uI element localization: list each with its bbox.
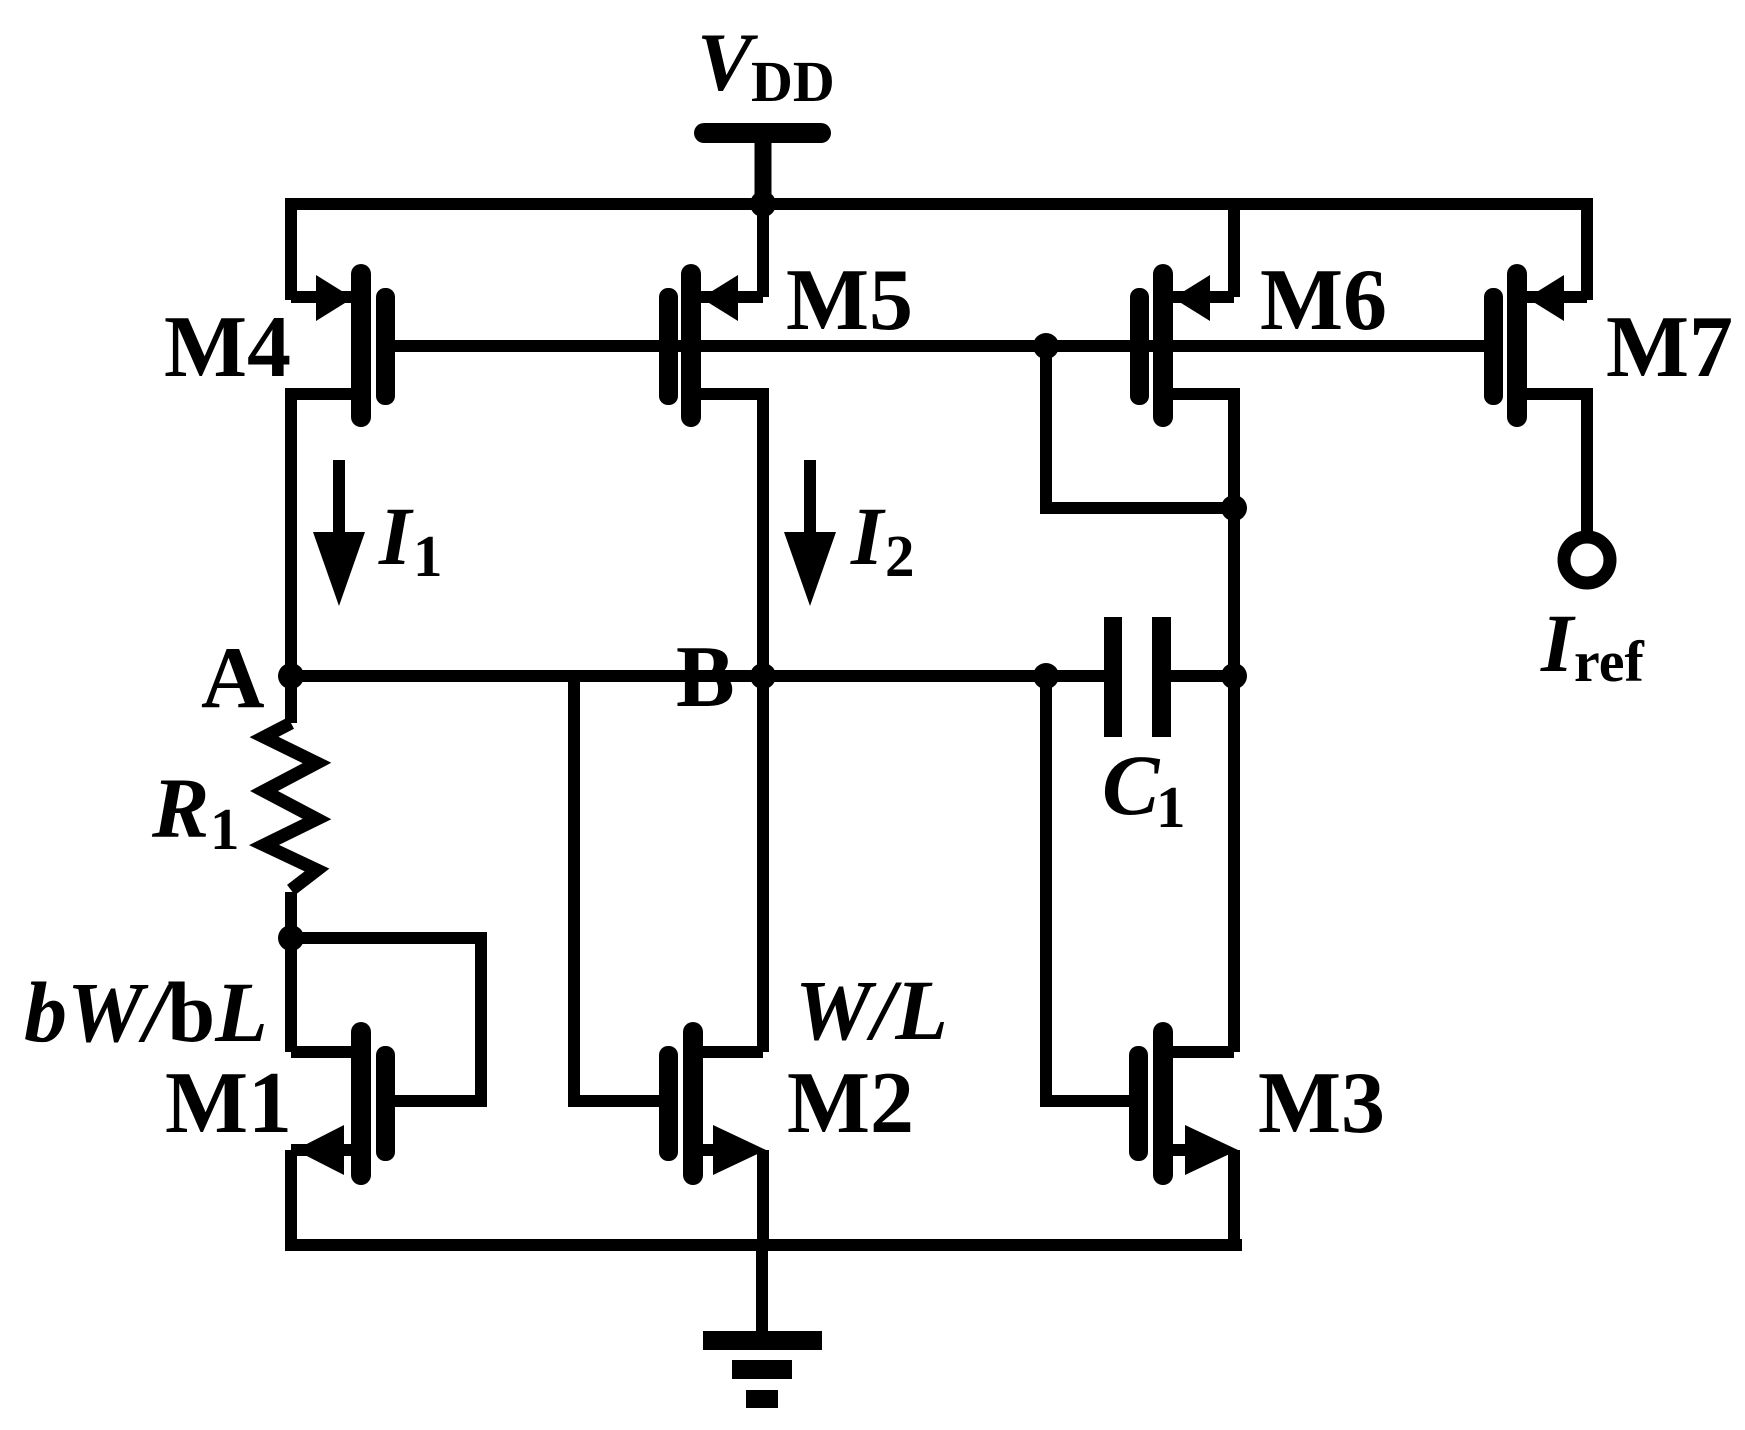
svg-text:2: 2 — [885, 523, 915, 589]
junction dot B wire / M3 gate — [1033, 663, 1059, 689]
transistor M1 — [291, 1022, 395, 1185]
wire M3 source to bottom rail — [1228, 1150, 1240, 1245]
current arrow I2 — [784, 460, 836, 606]
svg-text:M6: M6 — [1260, 252, 1387, 349]
transistor M3 — [1129, 1022, 1238, 1185]
wire node A - node B - C1 left lead — [291, 670, 1104, 682]
wire node A branch to M2 gate — [574, 676, 665, 1101]
svg-text:1: 1 — [210, 796, 240, 862]
junction dot gate bus — [1033, 333, 1059, 359]
svg-text:bW/bL: bW/bL — [24, 964, 268, 1060]
svg-text:C: C — [1102, 737, 1161, 833]
resistor R1 — [264, 723, 317, 890]
wire VDD stem — [755, 141, 772, 204]
svg-text:M5: M5 — [786, 252, 913, 349]
svg-text:ref: ref — [1574, 629, 1644, 694]
wire M6 source from rail — [1228, 210, 1240, 297]
node A dot — [278, 663, 304, 689]
svg-text:I: I — [1540, 597, 1576, 689]
wire top rail VDD — [291, 204, 1587, 300]
svg-text:I: I — [850, 490, 886, 582]
svg-text:V: V — [697, 16, 758, 108]
junction dot R1 / M1 — [278, 925, 304, 951]
wire M5 source from rail — [757, 204, 769, 297]
wire C1 right lead — [1171, 670, 1234, 682]
capacitor C1 — [1104, 617, 1171, 737]
wire M2 source to bottom rail — [757, 1150, 769, 1245]
transistor M7 — [1484, 264, 1587, 427]
wire M1 source to bottom rail — [285, 1150, 297, 1245]
junction dot VDD-rail — [750, 191, 776, 217]
ground symbol — [703, 1331, 822, 1408]
wire ground stem — [756, 1245, 768, 1331]
transistor M4 — [291, 264, 395, 427]
svg-text:M4: M4 — [164, 299, 291, 396]
svg-text:W/L: W/L — [795, 962, 948, 1058]
svg-text:M2: M2 — [787, 1055, 914, 1152]
svg-text:B: B — [676, 629, 735, 726]
terminal Iref circle — [1564, 537, 1610, 583]
power symbol VDD bar — [694, 123, 831, 143]
svg-text:A: A — [201, 630, 265, 727]
wire R1 to M1 node — [285, 892, 297, 1052]
node B dot — [750, 663, 776, 689]
wire bottom rail — [285, 1239, 1242, 1251]
wire gate bus M4-M7 — [386, 340, 1494, 352]
wire M6 drain - C1 - M3 drain — [1228, 388, 1240, 1052]
svg-text:M1: M1 — [165, 1055, 292, 1152]
transistor M6 — [1130, 264, 1234, 427]
junction dot C1 right — [1221, 663, 1247, 689]
junction dot link to M6 drain — [1221, 495, 1247, 521]
svg-text:R: R — [151, 760, 209, 856]
svg-text:M7: M7 — [1606, 299, 1733, 396]
svg-text:1: 1 — [413, 523, 443, 589]
wire M6 gate-drain link — [1046, 346, 1234, 508]
wire M5 drain - node B - M2 drain — [757, 388, 769, 1052]
current arrow I1 — [313, 460, 365, 606]
transistor M5 — [659, 264, 763, 427]
svg-text:DD: DD — [751, 49, 835, 114]
transistor M2 — [659, 1022, 766, 1185]
wire M7 drain to Iref terminal — [1581, 388, 1593, 537]
svg-text:I: I — [378, 490, 414, 582]
wire node B to M3 gate — [1046, 676, 1135, 1101]
svg-text:M3: M3 — [1258, 1055, 1385, 1152]
svg-text:1: 1 — [1156, 774, 1186, 840]
wire M4 drain to node A — [285, 388, 297, 723]
wire M1 gate loop — [291, 938, 481, 1101]
